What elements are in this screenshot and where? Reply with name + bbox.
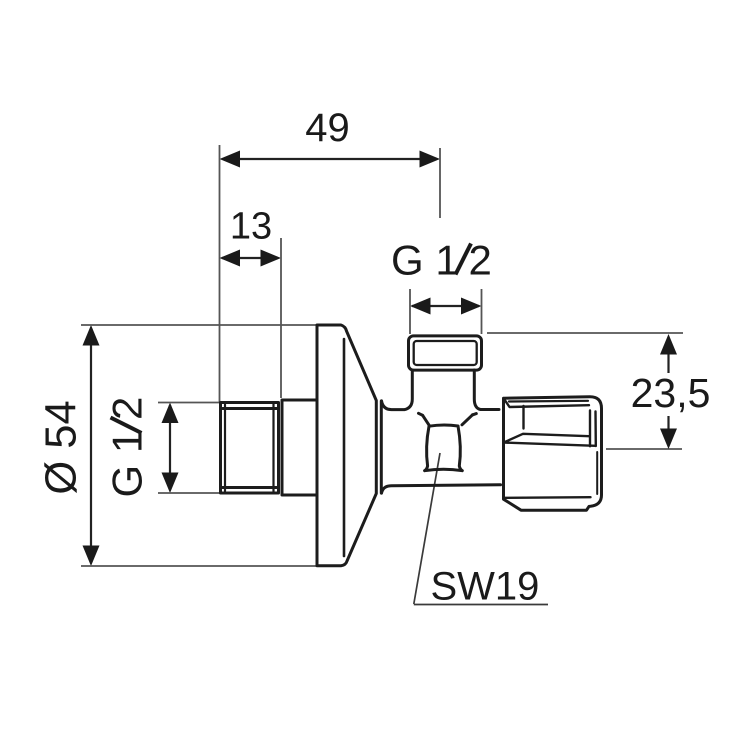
dimension 13 line: [222, 257, 278, 259]
nut right end double line a: [589, 411, 591, 447]
dimension 49 text: [305, 106, 350, 150]
extension line 54 bottom: [81, 565, 316, 567]
svg-text:49: 49: [305, 106, 350, 150]
arrow G1/2 left up: [162, 403, 179, 424]
dimension 23,5 lower segment: [667, 416, 669, 438]
svg-text:Ø 54: Ø 54: [38, 400, 86, 494]
svg-text:G 1: G 1: [104, 430, 151, 498]
dimension G 1/2 top text: [391, 237, 492, 284]
port cap inner: [414, 341, 477, 365]
nut flat bottom edge: [504, 434, 589, 443]
svg-text:23,5: 23,5: [631, 370, 711, 416]
svg-text:G 1: G 1: [391, 237, 459, 284]
arrow 13 left: [220, 250, 241, 267]
svg-text:13: 13: [230, 206, 272, 248]
svg-text:2: 2: [469, 237, 492, 284]
dimension 23,5 upper segment: [667, 345, 669, 373]
arrow 49 right: [420, 151, 441, 168]
extension line G1/2 left bottom: [158, 492, 220, 494]
dimension G 1/2 left text: [104, 397, 151, 498]
body bottom edge: [382, 485, 501, 493]
thread inner left line: [224, 405, 226, 492]
dimension diameter 54 text: [38, 400, 86, 494]
SW19 label text: [431, 565, 540, 609]
hex transition tick left: [419, 413, 423, 415]
dimension 23,5 text: [631, 370, 711, 416]
extension line G1/2 top right: [481, 289, 483, 334]
dimension G 1/2 top line: [412, 305, 479, 307]
dimension 49 line: [223, 158, 437, 160]
port cap outer: [409, 336, 482, 370]
extension line 23,5 bottom: [606, 448, 682, 450]
arrow 49 left: [220, 151, 241, 168]
dimension 13 text: [230, 206, 272, 248]
arrow 54 up: [83, 325, 100, 346]
extension line 54 top: [81, 324, 316, 326]
compression nut outline: [504, 397, 602, 510]
arrow G1/2 left down: [162, 473, 179, 494]
nut front face bottom edge: [504, 496, 591, 499]
male thread G1/2 outer: [221, 403, 279, 494]
dimension G1/2 left line: [169, 405, 171, 490]
extension line right 49: [439, 148, 441, 218]
arrow 54 down: [83, 546, 100, 567]
extension line right 13: [280, 238, 282, 398]
body top right edge with port right side: [474, 370, 499, 410]
hex barrel: [425, 425, 463, 471]
arrow 23,5 up: [660, 334, 677, 355]
svg-text:2: 2: [104, 397, 151, 420]
SW19 leader line: [414, 453, 440, 604]
thread end face line: [272, 404, 274, 492]
nut top inner line: [509, 400, 588, 403]
hex transition tick right: [472, 414, 476, 415]
svg-text:SW19: SW19: [431, 565, 540, 609]
extension line 23,5 top: [487, 332, 683, 334]
shoulder ring: [282, 400, 317, 495]
nut flat divider vertical: [522, 406, 524, 429]
SW19 underline: [414, 604, 548, 606]
main outlines: [221, 325, 602, 566]
nut right inner short line: [596, 452, 598, 494]
arrow 13 right: [261, 250, 282, 267]
extension line G1/2 left top: [158, 402, 220, 404]
nut chamfer bottom edge: [505, 443, 596, 446]
hex transition slant right: [462, 415, 472, 425]
wall flange disc and cone: [317, 325, 376, 566]
arrow 23,5 down: [660, 429, 677, 450]
dimension 54 line: [90, 328, 92, 563]
thread inner bottom line: [223, 486, 278, 489]
extension line shared left (49/13): [219, 145, 221, 402]
body top left edge with port left side: [382, 370, 413, 410]
hex transition slant left: [423, 415, 430, 426]
nut front flat top edge: [504, 398, 590, 407]
arrow G1/2 top left: [410, 298, 431, 315]
flange disc right edge: [343, 339, 346, 556]
flange neck inner line: [380, 401, 383, 493]
extension line G1/2 top left: [409, 289, 411, 334]
nut right end double line b: [594, 412, 597, 447]
arrow G1/2 top right: [461, 298, 482, 315]
thread inner top line: [223, 407, 278, 410]
